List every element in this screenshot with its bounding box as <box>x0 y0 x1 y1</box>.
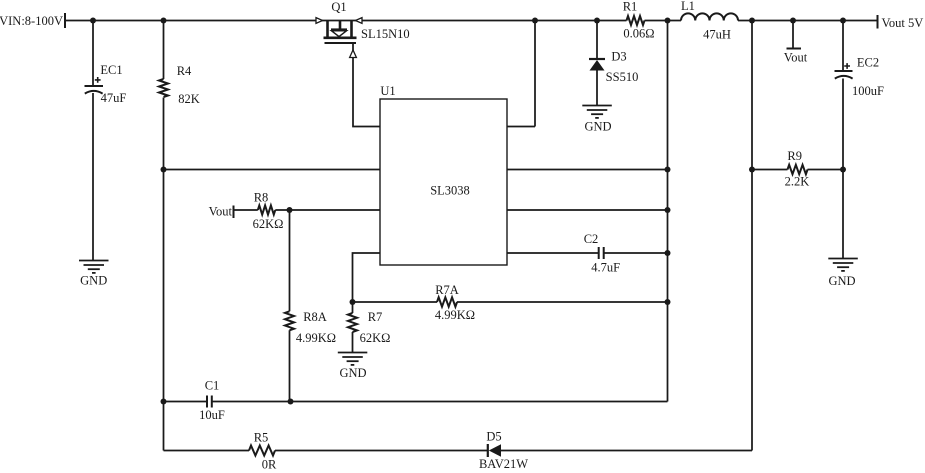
wire top rail VIN to Vout5V <box>65 20 878 22</box>
svg-text:R5: R5 <box>254 431 269 445</box>
svg-text:R1: R1 <box>623 0 638 14</box>
svg-text:62KΩ: 62KΩ <box>253 217 284 231</box>
svg-text:VIN:8-100V: VIN:8-100V <box>0 14 63 28</box>
svg-text:Vout: Vout <box>209 205 233 219</box>
ground below EC2 <box>828 259 858 271</box>
svg-text:EC1: EC1 <box>100 63 122 77</box>
wire R7A line <box>353 301 668 303</box>
svg-text:Vout: Vout <box>784 51 808 65</box>
svg-text:SL15N10: SL15N10 <box>361 27 410 41</box>
capacitor C2 <box>599 247 604 259</box>
wire EC1 column <box>92 21 94 261</box>
svg-text:C1: C1 <box>205 379 220 393</box>
ground below D3 <box>582 106 612 118</box>
svg-text:R7: R7 <box>368 310 383 324</box>
wire U1 pin4 right through C2 <box>507 252 668 254</box>
diode D3 <box>596 21 598 106</box>
capacitor C1 <box>207 396 212 408</box>
svg-text:SL3038: SL3038 <box>430 184 470 198</box>
terminal Vout 5V <box>877 15 879 29</box>
svg-text:EC2: EC2 <box>857 56 879 70</box>
wire U1 pin4 left <box>353 253 381 302</box>
diode D5 <box>487 444 489 457</box>
transistor Q1 <box>316 18 362 43</box>
svg-text:R8A: R8A <box>303 310 327 324</box>
svg-text:U1: U1 <box>380 84 395 98</box>
terminal Vout (R8) <box>233 206 235 219</box>
arrow on gate wire <box>350 50 357 58</box>
wire U1 pin2 left to R4 column <box>164 169 381 171</box>
svg-text:10uF: 10uF <box>199 408 225 422</box>
svg-text:D3: D3 <box>611 50 626 64</box>
resistor R8 <box>258 205 275 214</box>
wire U1 pin3 right to bus <box>507 209 668 211</box>
svg-text:GND: GND <box>80 274 107 288</box>
terminal VIN <box>64 13 66 28</box>
wire R7 column <box>352 302 354 353</box>
resistor R4 <box>159 79 168 97</box>
svg-text:Q1: Q1 <box>331 0 346 14</box>
svg-text:D5: D5 <box>486 430 501 444</box>
svg-text:GND: GND <box>339 366 366 380</box>
ground below EC1 <box>79 261 109 273</box>
wire U1 pin2 right to bus <box>507 169 668 171</box>
resistor R7A <box>437 297 457 306</box>
svg-text:4.99KΩ: 4.99KΩ <box>296 331 336 345</box>
svg-text:4.7uF: 4.7uF <box>591 260 620 274</box>
resistor R7 <box>348 313 357 332</box>
wire Q1 gate to U1 pin1 left <box>353 43 380 127</box>
svg-text:R8: R8 <box>254 191 269 205</box>
capacitor EC1 <box>85 86 104 94</box>
IC U1 SL3038 <box>380 99 507 265</box>
wire U1 pin3 left through R8 <box>234 209 381 211</box>
resistor R1 <box>627 16 645 25</box>
wire feedback bus <box>667 21 669 402</box>
wire output column <box>751 21 753 451</box>
svg-text:GND: GND <box>828 274 855 288</box>
svg-text:0R: 0R <box>262 458 277 472</box>
svg-text:2.2K: 2.2K <box>785 175 810 189</box>
svg-text:L1: L1 <box>681 0 695 13</box>
resistor R9 <box>788 165 808 174</box>
svg-text:0.06Ω: 0.06Ω <box>623 27 654 41</box>
svg-text:GND: GND <box>584 120 611 134</box>
wire U1 pin1 right to top rail <box>507 21 535 127</box>
resistor R5 <box>249 446 275 456</box>
wire R8A column <box>289 210 291 402</box>
svg-text:Vout 5V: Vout 5V <box>882 16 924 30</box>
svg-text:R7A: R7A <box>435 283 459 297</box>
svg-text:C2: C2 <box>584 232 599 246</box>
svg-text:47uH: 47uH <box>703 28 731 42</box>
svg-text:BAV21W: BAV21W <box>479 457 528 471</box>
svg-text:R9: R9 <box>787 149 802 163</box>
svg-text:47uF: 47uF <box>101 91 127 105</box>
terminal Vout stub <box>787 48 802 50</box>
svg-text:4.99KΩ: 4.99KΩ <box>435 308 475 322</box>
wire R4 column <box>163 21 165 451</box>
svg-text:62KΩ: 62KΩ <box>360 331 391 345</box>
wire C1 line <box>164 401 668 403</box>
wire bottom rail <box>164 450 753 452</box>
ground below R7 <box>338 353 368 365</box>
svg-text:SS510: SS510 <box>606 70 639 84</box>
svg-text:R4: R4 <box>177 64 192 78</box>
resistor R8A <box>285 311 294 330</box>
svg-text:82K: 82K <box>178 92 200 106</box>
capacitor EC2 <box>835 71 853 79</box>
svg-text:100uF: 100uF <box>852 84 884 98</box>
wire EC2 column <box>842 21 844 259</box>
wire R9 line <box>752 169 843 171</box>
inductor L1 <box>681 13 738 20</box>
wire Vout stub <box>792 21 794 49</box>
